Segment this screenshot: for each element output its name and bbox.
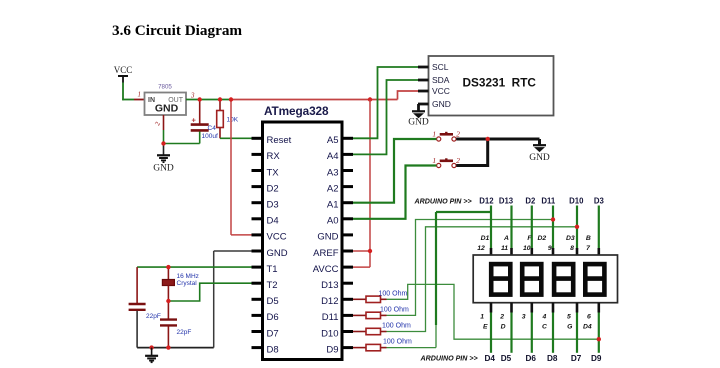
svg-text:D3: D3 — [566, 235, 575, 242]
svg-text:7805: 7805 — [158, 84, 172, 91]
svg-text:D2: D2 — [525, 196, 536, 205]
svg-text:GND: GND — [153, 164, 174, 174]
svg-text:3.6 Circuit Diagram: 3.6 Circuit Diagram — [112, 22, 242, 39]
svg-text:RX: RX — [267, 151, 281, 162]
svg-text:10: 10 — [523, 245, 531, 252]
svg-text:SDA: SDA — [432, 75, 450, 85]
svg-text:4: 4 — [542, 313, 547, 320]
svg-text:GND: GND — [529, 153, 550, 163]
svg-text:D11: D11 — [322, 312, 339, 323]
svg-text:D5: D5 — [501, 354, 512, 363]
svg-text:GND: GND — [408, 118, 429, 128]
svg-text:D: D — [501, 324, 506, 331]
svg-text:10K: 10K — [227, 117, 239, 124]
svg-text:100uf: 100uf — [202, 133, 218, 140]
svg-text:GND: GND — [432, 99, 451, 109]
svg-text:VCC: VCC — [114, 65, 133, 75]
svg-text:1: 1 — [480, 313, 484, 320]
svg-text:D12: D12 — [321, 296, 338, 307]
svg-text:VCC: VCC — [432, 86, 450, 96]
svg-text:D11: D11 — [541, 196, 556, 205]
svg-text:GND: GND — [317, 232, 338, 243]
svg-text:D8: D8 — [547, 354, 558, 363]
svg-text:6: 6 — [587, 313, 591, 320]
svg-text:GND: GND — [267, 248, 288, 259]
svg-text:D10: D10 — [321, 328, 338, 339]
svg-text:AREF: AREF — [313, 248, 339, 259]
svg-text:D4: D4 — [267, 216, 279, 227]
svg-text:D5: D5 — [267, 296, 279, 307]
svg-text:Reset: Reset — [267, 135, 292, 146]
svg-text:A5: A5 — [327, 135, 339, 146]
svg-text:2: 2 — [499, 313, 504, 320]
svg-text:A1: A1 — [327, 200, 339, 211]
svg-text:A0: A0 — [327, 216, 339, 227]
svg-text:D12: D12 — [479, 196, 494, 205]
svg-text:100 Ohm: 100 Ohm — [380, 306, 409, 313]
svg-text:3: 3 — [190, 92, 195, 100]
svg-text:2: 2 — [456, 130, 460, 139]
svg-text:GND: GND — [155, 103, 179, 115]
svg-text:ARDUINO PIN >>: ARDUINO PIN >> — [420, 355, 478, 363]
svg-text:D13: D13 — [499, 196, 514, 205]
svg-text:AVCC: AVCC — [313, 264, 339, 275]
svg-text:D7: D7 — [267, 328, 279, 339]
svg-text:D4: D4 — [484, 354, 495, 363]
svg-text:A2: A2 — [327, 183, 339, 194]
svg-text:100 Ohm: 100 Ohm — [379, 290, 408, 297]
svg-text:1: 1 — [432, 156, 436, 165]
svg-text:1: 1 — [138, 91, 142, 99]
svg-text:D9: D9 — [591, 354, 602, 363]
svg-text:3: 3 — [522, 313, 526, 320]
svg-text:ARDUINO PIN >>: ARDUINO PIN >> — [414, 197, 472, 205]
svg-text:G: G — [567, 324, 573, 331]
svg-text:DS3231 RTC: DS3231 RTC — [463, 76, 537, 90]
svg-text:1: 1 — [432, 130, 436, 139]
svg-text:C: C — [542, 324, 547, 331]
svg-text:D3: D3 — [594, 196, 605, 205]
svg-text:Crystal: Crystal — [177, 280, 198, 287]
svg-text:8: 8 — [570, 245, 574, 252]
svg-text:D8: D8 — [267, 344, 279, 355]
svg-text:A3: A3 — [327, 167, 339, 178]
svg-text:C4: C4 — [208, 125, 217, 132]
svg-text:VCC: VCC — [267, 232, 287, 243]
svg-text:B: B — [586, 235, 591, 242]
svg-text:D7: D7 — [571, 354, 582, 363]
svg-text:100 Ohm: 100 Ohm — [383, 339, 412, 346]
svg-text:22pF: 22pF — [177, 329, 192, 336]
svg-text:D9: D9 — [326, 344, 338, 355]
svg-text:22pF: 22pF — [146, 313, 161, 320]
svg-text:+: + — [192, 116, 197, 125]
svg-text:D6: D6 — [267, 312, 279, 323]
svg-text:11: 11 — [501, 245, 508, 252]
svg-text:D2: D2 — [537, 235, 546, 242]
svg-text:ATmega328: ATmega328 — [264, 104, 329, 118]
svg-text:D3: D3 — [267, 200, 279, 211]
svg-text:T1: T1 — [267, 264, 278, 275]
svg-text:5: 5 — [567, 313, 571, 320]
svg-text:2: 2 — [456, 156, 460, 165]
svg-text:A4: A4 — [327, 151, 339, 162]
svg-text:TX: TX — [267, 167, 280, 178]
svg-text:D13: D13 — [321, 280, 338, 291]
svg-text:A: A — [503, 235, 509, 242]
svg-text:D4: D4 — [583, 324, 592, 331]
svg-text:SCL: SCL — [432, 62, 449, 72]
svg-text:T2: T2 — [267, 280, 278, 291]
svg-text:D6: D6 — [525, 354, 536, 363]
svg-text:12: 12 — [477, 245, 485, 252]
svg-text:100 Ohm: 100 Ohm — [382, 323, 411, 330]
svg-text:9: 9 — [548, 245, 552, 252]
svg-text:E: E — [483, 324, 488, 331]
svg-text:D1: D1 — [481, 235, 490, 242]
svg-text:D10: D10 — [569, 196, 584, 205]
svg-text:D2: D2 — [267, 183, 279, 194]
